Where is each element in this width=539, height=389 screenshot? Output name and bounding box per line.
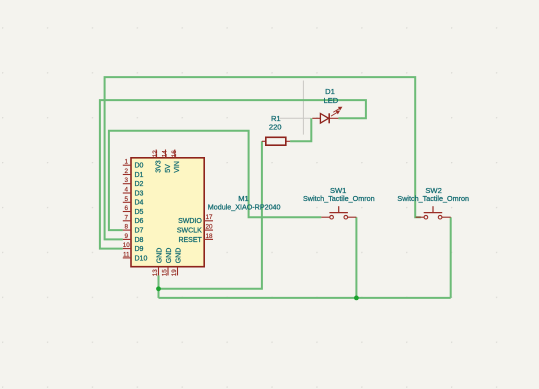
svg-text:D6: D6 xyxy=(135,218,144,225)
svg-text:8: 8 xyxy=(125,224,129,231)
svg-text:RESET: RESET xyxy=(178,237,202,244)
svg-text:D10: D10 xyxy=(135,255,148,262)
svg-text:D0: D0 xyxy=(135,163,144,170)
svg-text:LED: LED xyxy=(324,96,339,105)
svg-text:Switch_Tactile_Omron: Switch_Tactile_Omron xyxy=(397,194,469,203)
svg-text:7: 7 xyxy=(125,214,129,221)
svg-text:4: 4 xyxy=(125,187,129,194)
svg-text:3V3: 3V3 xyxy=(156,160,163,173)
wire GND bottom rail xyxy=(159,297,451,299)
IC left pins D0-D10 xyxy=(123,159,148,263)
svg-text:9: 9 xyxy=(125,233,129,240)
svg-text:D3: D3 xyxy=(135,190,144,197)
svg-text:220: 220 xyxy=(269,122,282,131)
svg-text:Switch_Tactile_Omron: Switch_Tactile_Omron xyxy=(303,194,375,203)
wire D8 to SW2 left xyxy=(105,77,421,239)
svg-text:14: 14 xyxy=(162,150,169,158)
svg-text:2: 2 xyxy=(125,168,129,175)
wire R1 left to GND net xyxy=(159,141,262,288)
svg-text:SWDIO: SWDIO xyxy=(178,218,202,225)
svg-text:11: 11 xyxy=(123,251,130,258)
wire R1 right to LED anode xyxy=(290,118,311,141)
LED D1 xyxy=(312,107,341,123)
svg-text:D5: D5 xyxy=(135,209,144,216)
svg-text:17: 17 xyxy=(205,214,213,221)
switch SW2 xyxy=(416,206,451,219)
wire SW1 right down xyxy=(355,217,357,298)
svg-text:Module_XIAO-RP2040: Module_XIAO-RP2040 xyxy=(208,203,281,212)
switch SW1 xyxy=(321,206,356,219)
svg-text:13: 13 xyxy=(152,269,159,277)
svg-text:15: 15 xyxy=(162,269,169,277)
svg-text:19: 19 xyxy=(171,269,178,277)
svg-text:5V: 5V xyxy=(165,164,172,173)
svg-text:SWCLK: SWCLK xyxy=(177,228,202,235)
IC top pins 3V3 5V VIN xyxy=(152,150,181,173)
resistor R1 xyxy=(262,137,290,145)
svg-text:6: 6 xyxy=(125,205,129,212)
svg-text:VIN: VIN xyxy=(174,161,181,173)
svg-text:GND: GND xyxy=(166,248,173,264)
svg-text:GND: GND xyxy=(156,248,163,264)
svg-text:D1: D1 xyxy=(325,87,335,96)
cursor crosshair xyxy=(280,81,311,135)
svg-text:12: 12 xyxy=(152,150,159,158)
svg-text:16: 16 xyxy=(171,150,178,158)
svg-text:10: 10 xyxy=(123,242,131,249)
svg-text:D2: D2 xyxy=(135,181,144,188)
svg-text:D7: D7 xyxy=(135,228,144,235)
junction at GND rail / SW1 xyxy=(354,296,359,301)
wire D7 to SW1 left xyxy=(109,131,321,230)
svg-text:1: 1 xyxy=(125,159,129,166)
svg-text:18: 18 xyxy=(205,233,213,240)
svg-text:GND: GND xyxy=(175,248,182,264)
svg-text:D8: D8 xyxy=(135,237,144,244)
svg-text:D1: D1 xyxy=(135,172,144,179)
svg-text:3: 3 xyxy=(125,177,129,184)
wire GND pin down xyxy=(158,275,160,298)
IC right pins SWDIO SWCLK RESET xyxy=(177,214,213,244)
wire D9 to LED cathode xyxy=(100,100,366,249)
svg-text:D4: D4 xyxy=(135,200,144,207)
svg-text:D9: D9 xyxy=(135,246,144,253)
wire SW2 right down xyxy=(450,217,452,298)
svg-text:20: 20 xyxy=(205,224,213,231)
junction at GND / R1 net xyxy=(156,286,161,291)
svg-text:5: 5 xyxy=(125,196,129,203)
IC bottom pins GND xyxy=(152,248,182,277)
IC M1 body xyxy=(131,158,204,267)
